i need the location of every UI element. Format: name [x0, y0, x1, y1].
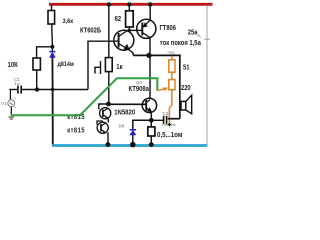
wire mid vertical from red bus: [108, 5, 110, 58]
svg-text:1к: 1к: [116, 63, 123, 71]
svg-text:ГТ806: ГТ806: [160, 25, 177, 33]
svg-text:1u: 1u: [14, 81, 19, 86]
svg-text:С3: С3: [163, 111, 169, 116]
node A junction dot: [50, 45, 54, 49]
junction dots cyan rail: [106, 142, 111, 147]
resistor 1k: [105, 58, 112, 72]
svg-text:1N5820: 1N5820: [114, 109, 135, 117]
wire T2 emitter up: [149, 5, 151, 21]
diode D6: [130, 130, 136, 135]
wire kt815 chain vertical: [107, 119, 109, 145]
svg-text:220: 220: [181, 85, 191, 93]
transistor KT815 bottom: [97, 122, 108, 133]
wiper arrow orange: [157, 89, 164, 91]
transistor KT815 top: [100, 108, 111, 119]
wire C1 left lead: [9, 89, 17, 91]
probe mark V1: [14, 98, 16, 108]
wire T3 emitter down: [150, 112, 152, 121]
svg-text:ток покоя 1,5а: ток покоя 1,5а: [160, 39, 201, 47]
svg-text:82: 82: [115, 16, 122, 24]
wire node B left L: [99, 104, 109, 110]
svg-text:Q1: Q1: [136, 80, 143, 85]
ammeter line grey: [206, 6, 208, 146]
source V1: [8, 100, 15, 107]
svg-text:D6: D6: [119, 124, 125, 129]
ammeter probe icon: [198, 35, 201, 38]
wire to V1: [9, 90, 11, 101]
svg-text:3,6к: 3,6к: [63, 18, 74, 26]
zener diode D814: [49, 52, 55, 58]
wire node A to 10K: [37, 47, 53, 58]
svg-text:д814м: д814м: [58, 62, 74, 69]
zener diode D814 lead top: [51, 47, 53, 51]
wire zener bottom to ground rail: [51, 57, 53, 145]
wire emitter node down: [150, 120, 152, 127]
wire emitter node left: [133, 120, 152, 129]
capacitor C3: [164, 116, 167, 124]
svg-text:КТ908а: КТ908а: [129, 86, 150, 94]
resistor 10K: [33, 58, 40, 70]
wire T1 base loop left: [87, 41, 89, 90]
wire input horizontal: [22, 89, 88, 91]
wire T1 emitter to bus: [131, 51, 134, 56]
transistor T2 GT806: [137, 19, 156, 38]
wire between kt815 pair: [97, 121, 103, 125]
wire T1 base loop top: [88, 40, 119, 42]
svg-text:51: 51: [183, 64, 190, 72]
wire pot bottom orange: [169, 90, 172, 124]
svg-text:10К: 10К: [8, 62, 19, 70]
wire node B to T3 base: [109, 103, 147, 105]
wire emitter node right to C3: [151, 119, 163, 121]
polarity cross: [168, 123, 172, 126]
junction dot 10K bottom: [35, 87, 39, 91]
svg-text:кт815: кт815: [67, 127, 85, 135]
resistor 82 leads: [128, 5, 130, 30]
node B junction dot: [106, 102, 111, 107]
wire 1k bottom: [108, 72, 110, 104]
wire D6 bottom: [132, 135, 134, 144]
svg-text:V1: V1: [1, 101, 7, 106]
svg-text:под: под: [168, 51, 176, 55]
resistor 0,5..1om: [148, 127, 155, 136]
junction dots red bus: [107, 2, 111, 6]
trimmer tap: [95, 61, 101, 74]
ground rail cyan: [52, 144, 207, 147]
junction dot T3 emitter node: [149, 118, 154, 123]
wire green signal: [11, 78, 157, 115]
junction dot zener column: [51, 88, 54, 91]
wire 10K bottom: [36, 70, 38, 90]
wire R load bottom: [150, 136, 152, 144]
junction dot R82 bottom: [128, 29, 131, 32]
svg-text:КТ602Б: КТ602Б: [80, 27, 101, 35]
resistor 82: [126, 11, 134, 27]
svg-text:0,5...1ом: 0,5...1ом: [157, 132, 182, 140]
ground: [9, 117, 15, 119]
svg-text:25а: 25а: [188, 29, 198, 37]
resistor R 3,6k: [48, 11, 55, 25]
transistor T1 KT602B: [114, 30, 134, 51]
speaker: [181, 95, 192, 114]
wire V+ red bus: [49, 3, 213, 6]
junction dot emitter bus: [146, 53, 151, 58]
wire to T2 base: [127, 29, 142, 31]
resistor R 3,6k leads: [51, 5, 54, 47]
wire V1 bottom: [10, 107, 12, 116]
capacitor C1: [18, 86, 21, 94]
potentiometer 220 orange: [169, 80, 175, 90]
transistor T3 KT908a: [142, 98, 156, 112]
wire emitter bus horizontal: [133, 54, 181, 56]
wire bottom horizontal to speaker: [168, 118, 180, 120]
wire T2 collector down: [149, 38, 151, 99]
ammeter tick: [204, 38, 210, 40]
wire pot box right vertical: [179, 55, 181, 119]
resistor 51 orange: [169, 56, 175, 80]
